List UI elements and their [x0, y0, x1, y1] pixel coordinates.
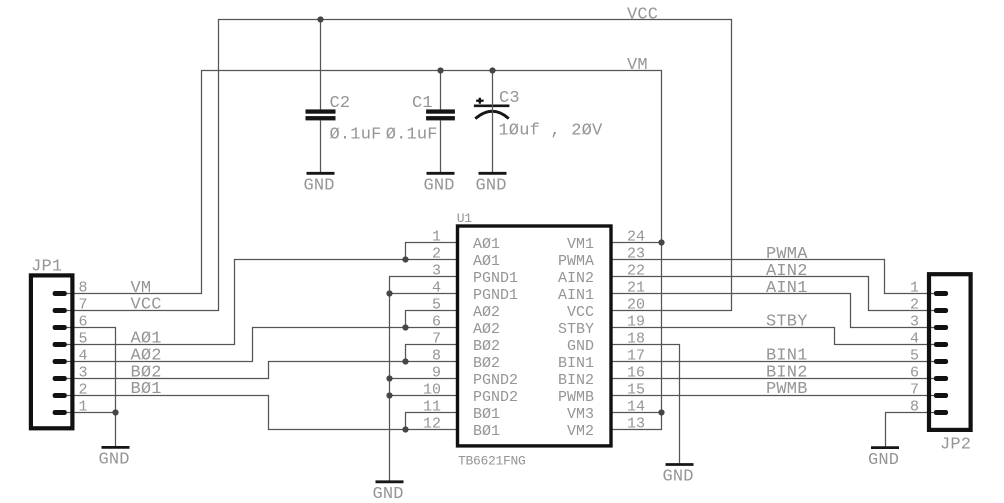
- svg-text:22: 22: [627, 263, 645, 280]
- net label A02: [131, 346, 162, 365]
- svg-text:GND: GND: [423, 177, 454, 196]
- connector JP1 pins: [53, 291, 67, 415]
- svg-text:PWMB: PWMB: [558, 389, 594, 406]
- junction C3 on VM rail: [489, 67, 495, 73]
- svg-text:BIN2: BIN2: [558, 372, 594, 389]
- svg-text:U1: U1: [457, 211, 473, 226]
- junction VM at U1 pin 14: [658, 409, 664, 415]
- net label B01: [131, 380, 162, 399]
- svg-text:3: 3: [432, 263, 441, 280]
- net label BIN2: [766, 363, 808, 382]
- wire PWMB net: U1 pin 15 to JP2 pin 7: [611, 395, 941, 397]
- U1 left pin numbers 1-12: [423, 229, 441, 433]
- JP1 pin numbers 8-1: [79, 280, 88, 416]
- net label AIN2: [766, 262, 808, 281]
- svg-text:TB6621FNG: TB6621FNG: [458, 453, 526, 468]
- junction PGND at U1 pin 9: [386, 375, 392, 381]
- svg-text:12: 12: [423, 416, 441, 433]
- svg-text:3: 3: [910, 314, 919, 331]
- svg-text:AØ2: AØ2: [473, 321, 500, 338]
- svg-text:8: 8: [910, 399, 919, 416]
- wire VM net: JP1 pin 8 up over rail down right side to U1 pin 13: [60, 71, 662, 430]
- svg-text:24: 24: [627, 229, 645, 246]
- svg-text:VCC: VCC: [567, 304, 594, 321]
- connector JP2 pins: [934, 291, 948, 415]
- U1 left pin names: [473, 236, 518, 440]
- ground for JP2: [868, 448, 899, 470]
- svg-text:BØ1: BØ1: [131, 380, 162, 399]
- svg-text:10: 10: [423, 382, 441, 399]
- svg-text:PWMA: PWMA: [558, 253, 594, 270]
- svg-text:BØ2: BØ2: [473, 355, 500, 372]
- junction PGND at U1 pin 4: [386, 290, 392, 296]
- wire PGND net: U1 pins 3,4,9,10 to ground: [390, 277, 458, 482]
- svg-text:VCC: VCC: [627, 5, 658, 24]
- wire AIN1 net: U1 pin 21 to JP2 pin 3: [611, 294, 941, 328]
- svg-text:JP1: JP1: [31, 257, 62, 276]
- svg-text:4: 4: [910, 331, 919, 348]
- svg-text:AIN1: AIN1: [766, 279, 808, 298]
- svg-text:Ø.1uF: Ø.1uF: [386, 125, 438, 144]
- svg-text:2: 2: [79, 382, 88, 399]
- svg-text:AIN1: AIN1: [558, 287, 594, 304]
- svg-text:VM1: VM1: [567, 236, 594, 253]
- net label BIN1: [766, 346, 808, 365]
- junction A02 at U1 pin 6: [402, 324, 408, 330]
- svg-text:6: 6: [432, 314, 441, 331]
- svg-text:GND: GND: [303, 177, 334, 196]
- svg-text:21: 21: [627, 280, 645, 297]
- wire VCC net: JP1 pin 7 up over top rail down to U1 pin 20: [60, 20, 732, 311]
- svg-text:2: 2: [432, 246, 441, 263]
- svg-text:7: 7: [79, 297, 88, 314]
- wire JP2 pin 8 to ground: [886, 413, 942, 448]
- net label PWMA: [766, 245, 808, 264]
- node VCC label on top rail: [627, 5, 658, 24]
- wire A01 jog to U1 pin 1: [406, 243, 458, 260]
- svg-text:6: 6: [910, 365, 919, 382]
- svg-text:AØ1: AØ1: [473, 236, 500, 253]
- wire PWMA net: U1 pin 23 to JP2 pin 1: [611, 260, 941, 294]
- net label PWMB: [766, 380, 808, 399]
- svg-text:PWMB: PWMB: [766, 380, 808, 399]
- ground for U1 PGND: [372, 482, 403, 503]
- svg-text:AIN2: AIN2: [558, 270, 594, 287]
- svg-text:PGND1: PGND1: [473, 270, 518, 287]
- svg-text:GND: GND: [98, 451, 129, 470]
- svg-text:20: 20: [627, 297, 645, 314]
- svg-text:PGND1: PGND1: [473, 287, 518, 304]
- connector JP2 body: [929, 274, 971, 454]
- svg-text:5: 5: [910, 348, 919, 365]
- svg-text:BØ1: BØ1: [473, 423, 500, 440]
- net label A01: [131, 330, 162, 349]
- capacitor C1: [386, 94, 455, 172]
- svg-text:3: 3: [79, 365, 88, 382]
- svg-text:C3: C3: [499, 89, 520, 108]
- svg-text:7: 7: [432, 331, 441, 348]
- wire JP1 pin 6 and pin 1 to ground: [60, 328, 116, 447]
- svg-text:1: 1: [910, 280, 919, 297]
- svg-text:4: 4: [432, 280, 441, 297]
- svg-text:13: 13: [627, 416, 645, 433]
- wire B02 net: JP1 pin 3 to U1 pin 8: [60, 362, 458, 379]
- connector JP1 body: [31, 257, 73, 428]
- svg-text:VM2: VM2: [567, 423, 594, 440]
- net label AIN1: [766, 279, 808, 298]
- wire A02 net: JP1 pin 4 to U1 pin 6: [60, 328, 458, 362]
- wire AIN2 net: U1 pin 22 to JP2 pin 2: [611, 277, 941, 311]
- svg-text:VM3: VM3: [567, 406, 594, 423]
- svg-text:PGND2: PGND2: [473, 389, 518, 406]
- svg-text:2: 2: [910, 297, 919, 314]
- wire VM branch to U1 pin 14 VM3: [611, 412, 662, 414]
- ground for C1: [423, 173, 454, 195]
- ground for C2: [303, 173, 334, 195]
- svg-text:17: 17: [627, 348, 645, 365]
- wire C2 top to VCC rail: [320, 20, 322, 110]
- svg-text:1: 1: [432, 229, 441, 246]
- ground for C3: [475, 173, 506, 195]
- svg-text:C2: C2: [330, 94, 351, 113]
- U1 right pin numbers 24-13: [627, 229, 645, 433]
- svg-text:7: 7: [910, 382, 919, 399]
- junction C2 on VCC rail: [317, 16, 323, 22]
- U1 right pin names: [558, 236, 594, 440]
- svg-text:STBY: STBY: [766, 313, 808, 332]
- capacitor C3 polarized: [474, 71, 603, 173]
- svg-text:BØ1: BØ1: [473, 406, 500, 423]
- svg-text:15: 15: [627, 382, 645, 399]
- svg-text:BØ2: BØ2: [473, 338, 500, 355]
- junction B01 at U1 pin 12: [402, 426, 408, 432]
- svg-text:GND: GND: [372, 485, 403, 503]
- wire BIN1 net: U1 pin 17 to JP2 pin 5: [611, 361, 941, 363]
- svg-text:16: 16: [627, 365, 645, 382]
- svg-text:VM: VM: [627, 56, 648, 75]
- wire VM branch to U1 pin 24 VM1: [611, 242, 662, 244]
- svg-text:9: 9: [432, 365, 441, 382]
- svg-text:11: 11: [423, 399, 441, 416]
- IC U1 TB6621FNG body: [457, 211, 611, 468]
- svg-text:BIN1: BIN1: [558, 355, 594, 372]
- svg-text:14: 14: [627, 399, 645, 416]
- svg-text:C1: C1: [412, 94, 433, 113]
- svg-text:8: 8: [79, 280, 88, 297]
- svg-text:5: 5: [79, 331, 88, 348]
- svg-text:18: 18: [627, 331, 645, 348]
- net label VM at JP1 pin 8: [131, 279, 152, 298]
- svg-text:JP2: JP2: [940, 435, 971, 454]
- svg-text:Ø.1uF: Ø.1uF: [330, 125, 382, 144]
- wire A01 net: JP1 pin 5 to U1 pin 2: [60, 260, 458, 345]
- wire B01 jog to U1 pin 11: [406, 413, 458, 430]
- junction A01 at U1 pin 2: [402, 256, 408, 262]
- wire STBY net: U1 pin 19 to JP2 pin 4: [611, 328, 941, 345]
- junction PGND at U1 pin 10: [386, 392, 392, 398]
- svg-text:GND: GND: [868, 451, 899, 470]
- wire B02 jog to U1 pin 7: [406, 345, 458, 362]
- svg-text:GND: GND: [662, 468, 693, 487]
- svg-text:8: 8: [432, 348, 441, 365]
- wire B01 net: JP1 pin 2 to U1 pin 12: [60, 396, 458, 430]
- net label STBY: [766, 313, 808, 332]
- junction C1 on VM rail: [437, 67, 443, 73]
- svg-text:5: 5: [432, 297, 441, 314]
- svg-text:4: 4: [79, 348, 88, 365]
- capacitor C2: [306, 94, 382, 172]
- JP2 pin numbers 1-8: [910, 280, 919, 416]
- wire A02 jog to U1 pin 5: [406, 311, 458, 328]
- svg-text:1Øuf , 2ØV: 1Øuf , 2ØV: [498, 122, 603, 141]
- ground for U1 pin 18: [662, 465, 693, 487]
- svg-text:AØ2: AØ2: [473, 304, 500, 321]
- svg-text:VCC: VCC: [131, 296, 162, 315]
- net label VCC at JP1 pin 7: [131, 296, 162, 315]
- wire BIN2 net: U1 pin 16 to JP2 pin 6: [611, 378, 941, 380]
- node VM label on rail: [627, 56, 648, 75]
- svg-text:AØ1: AØ1: [473, 253, 500, 270]
- ground for JP1: [98, 447, 129, 469]
- junction B02 at U1 pin 8: [402, 358, 408, 364]
- svg-text:GND: GND: [567, 338, 594, 355]
- svg-text:PGND2: PGND2: [473, 372, 518, 389]
- svg-text:6: 6: [79, 314, 88, 331]
- junction GND at JP1 pin 1: [112, 409, 118, 415]
- svg-text:1: 1: [79, 399, 88, 416]
- net label B02: [131, 363, 162, 382]
- svg-text:STBY: STBY: [558, 321, 594, 338]
- svg-text:23: 23: [627, 246, 645, 263]
- svg-text:19: 19: [627, 314, 645, 331]
- svg-text:GND: GND: [475, 177, 506, 196]
- wire C1 top to VM rail: [440, 71, 442, 110]
- junction VM at U1 pin 24: [658, 239, 664, 245]
- wire U1 pin 18 GND to ground: [611, 345, 680, 464]
